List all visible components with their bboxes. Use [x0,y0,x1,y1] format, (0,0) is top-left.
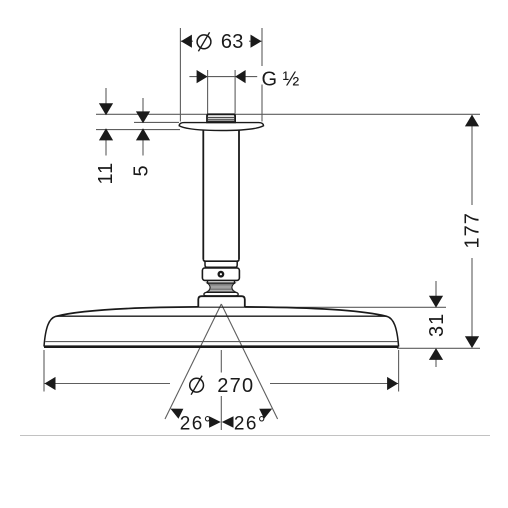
svg-text:270: 270 [217,375,254,397]
spray face bottom edge [44,345,399,348]
centerline (vertical axis) [220,350,222,430]
dimension 11 (left) [95,88,117,185]
angle arrow pair at centerline [209,416,233,428]
ribbed ball joint [206,283,236,292]
spray face inner line [45,341,397,343]
svg-text:31: 31 [426,313,448,337]
dimension 177 (right) [462,115,484,349]
shower head left rim [44,316,56,346]
dimension G 1/2 (top) [189,68,299,113]
dimension 31 (right) [245,281,448,367]
shower arm pipe (vertical) [203,130,239,261]
extension line flange-top level (dim 5) [134,121,179,123]
svg-text:5: 5 [131,165,153,176]
shower head dome top surface [56,307,387,317]
svg-text:11: 11 [95,162,117,185]
svg-text:177: 177 [462,212,484,248]
extension line thread-top level (shared by dim 11 and dim 177) [96,113,480,115]
svg-text:G ½: G ½ [262,68,300,90]
collar ring under pipe [205,261,237,267]
svg-text:63: 63 [221,31,244,53]
svg-text:26°: 26° [234,413,267,434]
shower head right rim [387,316,399,346]
angle label right 26deg [234,413,267,434]
ceiling reference plane line [20,435,490,437]
ceiling escutcheon flange [179,123,263,131]
dimension diameter 270 (bottom) [44,350,399,397]
connection thread (G1/2 nipple) [207,114,235,122]
lip collar above head [204,292,238,296]
angle arrow on left V line [168,404,183,419]
svg-text:26°: 26° [180,413,213,434]
angle V line right (26 deg) [221,304,277,419]
dome top edge behind platform [198,306,245,308]
set screw dot on nut [218,271,225,278]
angle V line left (26 deg) [165,304,221,419]
head center platform [198,296,245,307]
dimension diameter 63 (top) [180,28,262,122]
swivel nut block [202,268,239,281]
step below nut [208,281,235,284]
angle arrow on right V line [259,404,274,419]
extension line bottom level (shared by dim 177 and dim 31) [397,347,480,349]
dimension 5 (left) [131,98,153,177]
shower head rim top edge (far side) [56,315,387,317]
extension line flange-bottom level (shared by dim 11 and dim 5) [96,129,180,131]
angle label left 26deg [180,413,213,434]
